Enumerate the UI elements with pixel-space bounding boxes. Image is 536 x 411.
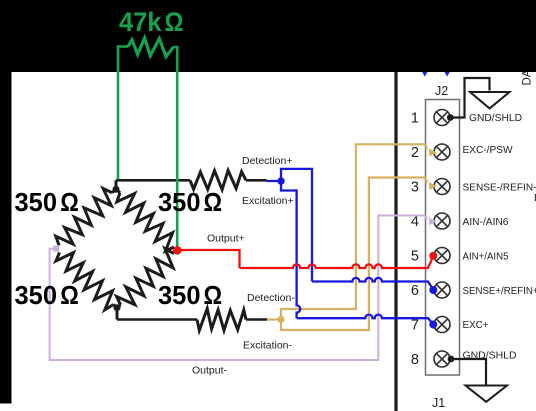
green resistor right lead + wire down to right node bbox=[173, 47, 177, 249]
svg-text:EXC+: EXC+ bbox=[463, 319, 489, 331]
svg-text:350: 350 bbox=[15, 280, 58, 310]
svg-text:Ω: Ω bbox=[60, 187, 79, 217]
junction dot pin8 bbox=[448, 356, 455, 363]
svg-text:350: 350 bbox=[158, 187, 201, 217]
bridge arm resistor top-right bbox=[117, 193, 174, 251]
yellow wire Excitation- to pin2 EXC- bbox=[267, 144, 427, 319]
bridge arm resistor bottom-left bbox=[56, 253, 114, 310]
black redaction bar top bbox=[0, 0, 536, 72]
junction dot yellow bbox=[277, 316, 284, 323]
wire bottom resistor black lead bbox=[246, 318, 267, 321]
bridge arm resistor bottom-right bbox=[117, 249, 174, 305]
blue dot pin7 bbox=[429, 321, 437, 329]
terminal block J2 rectangle bbox=[426, 100, 460, 376]
blue wire Excitation+ branch to pin7 EXC+ bbox=[281, 181, 300, 318]
svg-text:7: 7 bbox=[411, 318, 419, 334]
purple wire Output- : left node down and across to pin4 bbox=[50, 216, 427, 361]
junction dot blue bbox=[277, 177, 284, 184]
svg-text:Ω: Ω bbox=[60, 280, 79, 310]
ground symbol bottom (triangle) bbox=[466, 386, 508, 402]
svg-text:EXC-/PSW: EXC-/PSW bbox=[463, 144, 513, 156]
svg-text:6: 6 bbox=[411, 283, 419, 299]
yellow wire Detection- to pin3 SENSE- bbox=[281, 178, 427, 331]
svg-text:8: 8 bbox=[411, 352, 419, 368]
svg-text:350: 350 bbox=[158, 280, 201, 310]
svg-text:SENSE-/REFIN-: SENSE-/REFIN- bbox=[463, 182, 536, 194]
svg-text:3: 3 bbox=[411, 180, 419, 196]
svg-text:Excitation+: Excitation+ bbox=[242, 195, 294, 207]
svg-text:Ω: Ω bbox=[204, 187, 223, 217]
green resistor zigzag bbox=[128, 38, 173, 57]
thick vertical separator line bbox=[394, 71, 397, 411]
svg-text:AIN+/AIN5: AIN+/AIN5 bbox=[463, 251, 509, 263]
svg-text:47k: 47k bbox=[119, 7, 162, 37]
blue arrow remnant right (cut by black bar) bbox=[443, 69, 452, 77]
svg-text:Detection+: Detection+ bbox=[242, 155, 293, 167]
svg-text:J2: J2 bbox=[435, 84, 448, 98]
svg-text:Ω: Ω bbox=[204, 280, 223, 310]
red wire Output+ from bridge right node bbox=[178, 250, 240, 268]
green resistor left lead + wire down to top node wire bbox=[118, 47, 128, 180]
pin 2 terminal circle bbox=[434, 144, 450, 160]
wire bottom node to excitation- resistor bbox=[117, 318, 197, 321]
bridge arm resistor top-left bbox=[56, 189, 112, 246]
blue horizontal to pin7 with hops bbox=[297, 315, 434, 325]
blue horizontal to pin6 with hops bbox=[312, 278, 433, 290]
bridge node stubs bbox=[112, 180, 121, 319]
svg-text:2: 2 bbox=[411, 145, 419, 161]
pin 6 terminal circle bbox=[434, 282, 450, 298]
ground symbol top (triangle) bbox=[470, 92, 510, 108]
svg-text:1: 1 bbox=[411, 111, 419, 127]
svg-text:350: 350 bbox=[15, 187, 58, 217]
node top of bridge bbox=[113, 186, 120, 193]
pin 7 terminal circle bbox=[434, 317, 450, 333]
wire top node to detection resistor bbox=[116, 179, 190, 182]
blue dot pin6 bbox=[429, 286, 437, 294]
red horizontal with hops to pin5 bbox=[240, 256, 434, 268]
svg-text:AIN-/AIN6: AIN-/AIN6 bbox=[463, 216, 509, 228]
purple arrowhead pin4 bbox=[429, 218, 437, 226]
svg-text:SENSE+/REFIN+: SENSE+/REFIN+ bbox=[463, 285, 536, 297]
pin 3 terminal circle bbox=[434, 179, 450, 195]
node bottom of bridge bbox=[114, 304, 121, 311]
svg-text:Detection-: Detection- bbox=[247, 292, 295, 304]
red dot pin5 bbox=[429, 252, 437, 260]
pin 8 terminal circle bbox=[434, 351, 450, 367]
pin 4 terminal circle bbox=[434, 213, 450, 229]
yellow arrowhead pin2 bbox=[429, 149, 437, 157]
resistor 350ohm top (horizontal zigzag) bbox=[190, 171, 246, 190]
svg-text:Output-: Output- bbox=[192, 365, 228, 377]
junction dot pin1 bbox=[447, 114, 454, 121]
resistor 350ohm bottom (horizontal zigzag) bbox=[197, 309, 246, 331]
svg-text:Excitation-: Excitation- bbox=[243, 340, 293, 352]
pin 5 terminal circle bbox=[434, 248, 450, 264]
wire pin1 to top ground bbox=[450, 78, 490, 118]
pin 1 terminal circle bbox=[434, 110, 450, 126]
svg-text:5: 5 bbox=[411, 249, 419, 265]
svg-text:Ω: Ω bbox=[165, 7, 184, 37]
node right of bridge (red dot) bbox=[173, 246, 182, 255]
blue arrow remnant left (cut by black bar) bbox=[421, 69, 430, 77]
svg-text:GND/SHLD: GND/SHLD bbox=[469, 112, 522, 124]
svg-text:Output+: Output+ bbox=[207, 232, 245, 244]
wire pin8 to bottom ground bbox=[451, 359, 486, 385]
node left of bridge (purple square) bbox=[53, 246, 59, 252]
svg-text:J1: J1 bbox=[432, 396, 445, 410]
black redaction bar left bbox=[0, 0, 12, 404]
blue wire Detection+ branch to pin6 SENSE+ bbox=[267, 169, 313, 282]
yellow arrowhead pin3 bbox=[429, 182, 437, 190]
wire top resistor to blue junction bbox=[246, 179, 267, 182]
